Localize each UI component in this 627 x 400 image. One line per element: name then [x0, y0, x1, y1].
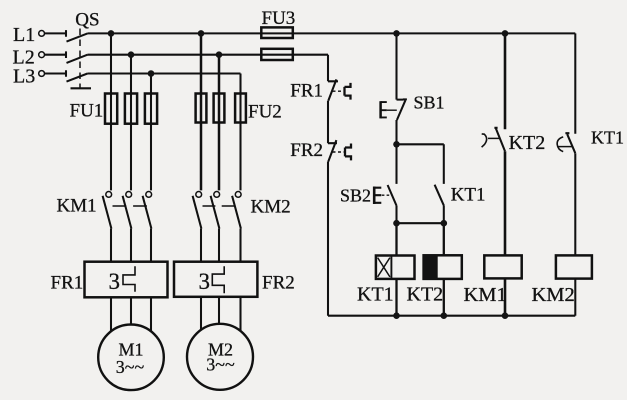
svg-text:3: 3 [199, 269, 211, 294]
svg-text:FU1: FU1 [70, 101, 104, 122]
svg-text:FU2: FU2 [248, 102, 282, 123]
svg-text:3~~: 3~~ [206, 355, 235, 375]
svg-text:KM2: KM2 [532, 284, 575, 306]
svg-text:KT1: KT1 [451, 185, 486, 206]
svg-text:KT1: KT1 [591, 128, 624, 148]
svg-text:L3: L3 [13, 66, 35, 88]
svg-text:FU3: FU3 [262, 8, 296, 29]
svg-text:KT2: KT2 [407, 284, 444, 306]
svg-text:KM1: KM1 [57, 195, 97, 216]
svg-text:3~~: 3~~ [116, 357, 145, 377]
svg-text:KM2: KM2 [251, 196, 291, 217]
svg-text:QS: QS [75, 10, 99, 31]
svg-text:3: 3 [109, 269, 121, 294]
svg-text:SB2: SB2 [340, 186, 371, 206]
svg-text:SB1: SB1 [414, 93, 445, 113]
svg-text:KT2: KT2 [509, 132, 546, 154]
svg-text:FR2: FR2 [262, 273, 295, 294]
svg-text:FR2: FR2 [290, 140, 323, 161]
svg-text:L1: L1 [13, 24, 35, 46]
svg-text:KM1: KM1 [464, 284, 507, 306]
svg-text:FR1: FR1 [51, 273, 84, 294]
svg-text:FR1: FR1 [290, 80, 323, 101]
svg-text:KT1: KT1 [357, 284, 394, 306]
